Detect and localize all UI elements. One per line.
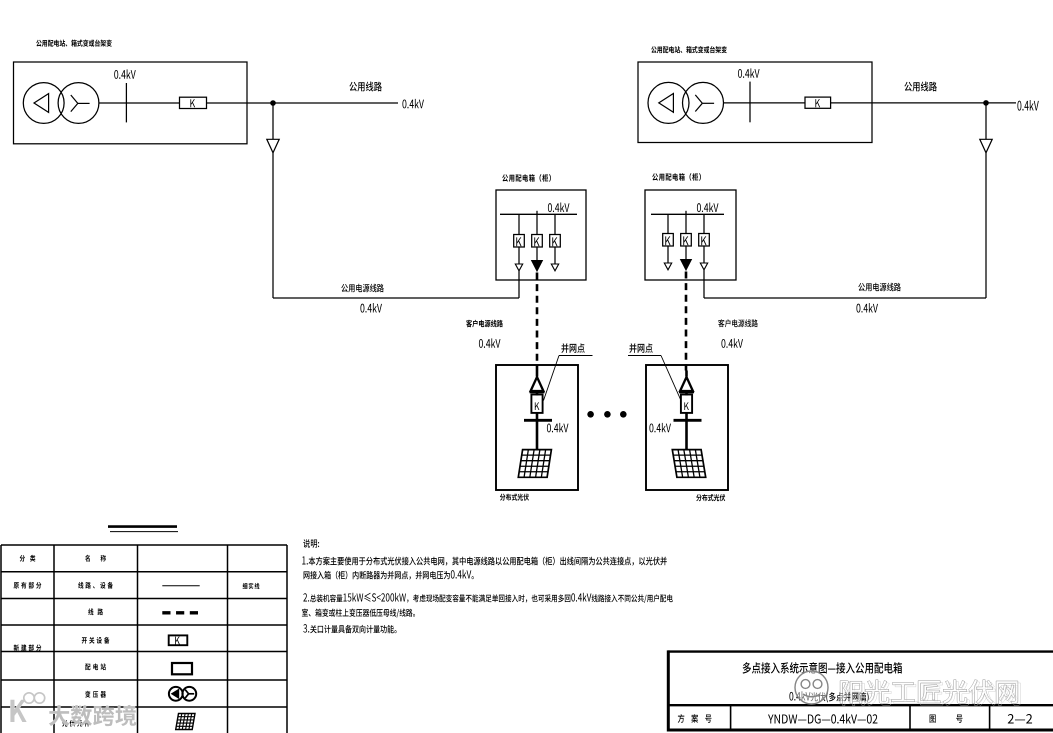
legend row6 name: PV element	[62, 720, 90, 727]
value label 0.4kV (customer line right)	[721, 338, 743, 348]
wire: bottom feeder horizontal (left)	[273, 297, 519, 299]
switch K2 (circuit breaker)	[805, 97, 831, 108]
feeder drop 2 wire (dist box 1)	[536, 211, 538, 235]
legend row3 name: switchgear	[82, 637, 110, 644]
PV unit 2 enclosure	[646, 365, 728, 490]
pointer slant line (grid point left)	[544, 356, 560, 401]
feeder drop 3 wire (dist box 1)	[554, 214, 556, 234]
open arrow down (drop 3)	[551, 264, 558, 271]
switch K (drop 3, dist box 2)	[699, 234, 710, 247]
scheme number value	[768, 714, 877, 724]
wire: node A down to arrow	[272, 103, 274, 139]
busbar tick 0.4kV (right station)	[749, 82, 751, 123]
title text line 1	[743, 662, 902, 673]
PV unit 1 enclosure	[496, 365, 578, 490]
transformer T1 secondary winding	[58, 83, 99, 124]
switch K (PV2 inverter breaker)	[681, 395, 692, 413]
transformer T1 delta symbol	[34, 94, 49, 113]
wire: node A to line end (public line)	[273, 102, 398, 104]
legend symbol: PV panel	[176, 714, 195, 730]
PV panel array symbol (PV1)	[518, 450, 551, 478]
node B junction dot	[983, 100, 989, 106]
net label: public supply line (left)	[341, 284, 383, 293]
feeder drop 2 wire (dist box 2)	[685, 211, 687, 234]
title text line 2	[789, 691, 868, 702]
wire below K drop 1	[518, 247, 520, 264]
dashed customer supply wire (left PV tie)	[536, 273, 539, 371]
label: distributed PV (left)	[500, 494, 529, 501]
notes line 1	[302, 556, 667, 565]
grid-connection arrow up (PV1)	[531, 377, 544, 391]
ellipsis dot 3	[620, 411, 627, 418]
legend symbol: distribution station rectangle	[172, 663, 192, 674]
legend symbol: existing line (thin solid)	[162, 585, 199, 587]
value label 0.4kV (right station)	[738, 68, 760, 78]
wire: node B to right edge (public line)	[986, 102, 1016, 104]
transformer station enclosure box (right)	[638, 62, 872, 143]
filled arrow down (drop 2 PV feed-in)	[532, 261, 543, 272]
label: public distribution box (right)	[652, 173, 701, 181]
legend remark: thin solid line	[243, 583, 260, 589]
value label 0.4kV (public line left)	[402, 99, 424, 109]
wire below K drop 1 (box 2)	[667, 246, 669, 263]
watermark text: yangguang gongjiang PV net	[843, 682, 1021, 706]
wire: drop 3 to bottom feeder (box 2)	[703, 270, 705, 298]
wire below K drop 3 (box 2)	[703, 246, 705, 263]
value label 0.4kV (PV1)	[547, 423, 569, 433]
open arrow down (left feeder)	[267, 139, 279, 153]
wire: PV busbar to panel (PV1)	[536, 420, 539, 450]
wire below K drop 2 (box 2)	[685, 246, 687, 260]
title block cell divider 2	[909, 705, 911, 730]
pointer slant line (grid point right)	[661, 356, 681, 401]
title block cell divider 1	[730, 705, 732, 730]
legend header: name	[85, 555, 106, 562]
net label: customer supply line (right)	[718, 319, 758, 327]
net label: public line (left)	[349, 82, 381, 92]
legend header: category	[20, 555, 36, 562]
switch K (drop 2, dist box 1)	[532, 235, 543, 248]
wire: K1 to node A	[207, 102, 274, 104]
legend symbol: new line (thick dashed)	[162, 611, 200, 614]
legend row4 name: distribution station	[85, 663, 106, 670]
value label 0.4kV (dist box 2 busbar)	[697, 203, 719, 213]
net label: customer supply line (left)	[466, 320, 503, 328]
filled arrow down (drop 2 PV feed-in, box 2)	[681, 260, 692, 271]
legend table grid	[1, 545, 287, 733]
switch K (drop 1, dist box 1)	[514, 235, 525, 248]
ellipsis dot 2	[604, 411, 611, 418]
busbar tick 0.4kV (left station)	[125, 83, 127, 122]
PV busbar bar (PV2)	[674, 419, 702, 422]
label: distributed PV (right)	[696, 494, 725, 501]
legend row1 category: existing part	[14, 582, 42, 589]
open arrow down (drop 1, box 2)	[664, 263, 671, 270]
net label: public distribution station (right)	[651, 46, 727, 53]
value label 0.4kV (left station)	[114, 69, 136, 79]
value label 0.4kV (dist box 1 busbar)	[548, 203, 570, 213]
transformer station enclosure box (left)	[14, 62, 248, 144]
wire: drop 1 to bottom feeder	[518, 271, 520, 298]
legend row2 name: line (new)	[88, 608, 103, 615]
wire: node B down to arrow	[985, 103, 987, 139]
PV panel array symbol (PV2)	[672, 450, 705, 478]
notes line 4	[302, 609, 415, 618]
wire: K to PV busbar (PV1)	[536, 413, 539, 420]
feeder drop 1 wire (dist box 2)	[667, 214, 669, 233]
switch K (drop 3, dist box 1)	[550, 235, 561, 248]
legend heading double rule (thick)	[108, 525, 177, 528]
wire: arrow down to corner (right drop)	[985, 153, 987, 298]
notes line 5	[303, 624, 396, 633]
switch K1 (circuit breaker)	[180, 97, 207, 108]
value label 0.4kV (supply line left)	[360, 303, 382, 313]
drawing number value	[1008, 714, 1032, 724]
transformer T1 wye symbol	[71, 95, 90, 112]
wire: bottom feeder horizontal (right)	[704, 297, 986, 299]
title block cell divider 3	[989, 705, 991, 730]
net label: public distribution station (left)	[36, 39, 112, 46]
wire below K drop 3	[554, 247, 556, 264]
wire: K2 to node B	[831, 102, 986, 104]
open arrow down (drop 1)	[515, 264, 522, 271]
watermark logo circle (sun mascot)	[795, 671, 828, 704]
grid-connection arrow up (PV2)	[680, 377, 693, 391]
value label 0.4kV (public line right)	[1017, 100, 1038, 111]
feeder drop 1 wire (dist box 1)	[518, 214, 520, 234]
switch K (PV1 inverter breaker)	[531, 395, 542, 413]
wire: PV busbar to panel (PV2)	[685, 420, 688, 450]
label: public distribution box (left)	[502, 174, 551, 182]
legend symbol: transformer circles	[169, 687, 183, 701]
notes line 2	[304, 570, 474, 580]
switch K (drop 2, dist box 2)	[681, 234, 692, 247]
open arrow down (drop 3, box 2)	[700, 263, 707, 270]
node A junction dot	[270, 100, 276, 106]
wire below K drop 2	[536, 247, 538, 261]
ellipsis dot 1	[587, 411, 594, 418]
pointer underline (grid point right)	[628, 355, 661, 357]
title block label: drawing number	[930, 714, 963, 722]
distribution box 2 enclosure	[645, 190, 736, 280]
dashed customer supply wire (right PV tie)	[685, 272, 688, 371]
legend symbol: switch K box	[169, 635, 188, 645]
pointer underline (grid point left)	[559, 355, 593, 357]
legend heading double rule (thin)	[110, 531, 178, 533]
transformer T2 delta symbol	[659, 94, 674, 113]
feeder drop 3 wire (dist box 2)	[703, 214, 705, 233]
notes line 3	[303, 593, 672, 603]
legend category: new part	[14, 644, 42, 651]
watermark logo K100	[10, 700, 26, 722]
watermark text: dashu kuajing	[49, 705, 136, 726]
legend row1 name: lines and equipment	[78, 582, 113, 589]
switch K (drop 1, dist box 2)	[663, 234, 674, 247]
transformer T1 primary winding	[23, 83, 64, 124]
net label: public supply line (right)	[858, 283, 900, 292]
title block outer border	[667, 650, 1053, 731]
transformer T2 primary winding	[648, 82, 689, 123]
transformer T2 secondary winding	[683, 82, 724, 123]
open arrow down (right feeder)	[980, 139, 992, 153]
wire: arrow down to corner (left drop)	[272, 153, 274, 298]
wire: T1 to K1	[99, 102, 180, 104]
PV busbar bar (PV1)	[524, 419, 552, 422]
net label: public line (right)	[904, 82, 936, 92]
wire: T2 to K2	[723, 102, 805, 104]
value label 0.4kV (supply line right)	[856, 303, 878, 313]
busbar (dist box 1)	[500, 213, 577, 215]
node label: grid connection point (right)	[629, 343, 652, 353]
legend row5 name: transformer	[85, 691, 106, 698]
node label: grid connection point (left)	[561, 343, 584, 353]
wire: K to PV busbar (PV2)	[685, 413, 688, 420]
value label 0.4kV (PV2)	[649, 423, 671, 433]
transformer T2 wye symbol	[695, 95, 714, 112]
notes heading	[303, 539, 319, 548]
title block label: scheme number	[678, 714, 712, 723]
distribution box 1 enclosure	[496, 190, 586, 280]
busbar (dist box 2)	[651, 213, 724, 215]
value label 0.4kV (customer line left)	[479, 338, 501, 348]
